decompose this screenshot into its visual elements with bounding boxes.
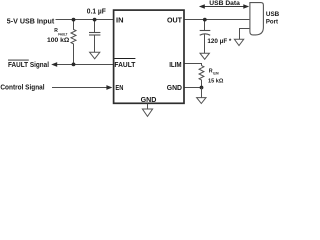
svg-text:FAULT Signal: FAULT Signal [8,61,49,69]
capacitor C2 stems [204,20,206,54]
node junction dot FAULT/R_FAULT [72,63,76,67]
resistor R_FAULT [71,20,76,65]
svg-text:Control Signal: Control Signal [0,84,44,92]
svg-text:OUT: OUT [167,15,183,24]
svg-text:GND: GND [167,83,182,92]
svg-text:100 kΩ: 100 kΩ [47,37,70,44]
IC box U1 [114,10,184,103]
svg-text:IN: IN [116,15,124,24]
svg-text:15 kΩ: 15 kΩ [208,78,224,84]
node junction dot input/C1 [93,18,97,22]
wire input to IN pin [56,19,114,21]
resistor R_ILIM [199,66,204,88]
svg-text:ILIM: ILIM [169,60,181,69]
arrowhead FAULT signal (points left) [51,62,57,67]
svg-text:0.1 µF: 0.1 µF [87,8,107,15]
USB port connector shell [250,3,264,35]
overbar on FAULT pin [114,58,135,60]
node junction dot R_ILIM/GND [200,86,204,90]
wire OUT pin to USB port [185,19,250,21]
node junction dot input/R_FAULT [72,18,76,22]
ground under R_ILIM [197,88,206,104]
capacitor C1 0.1uF plates [89,33,100,36]
svg-text:5-V USB Input: 5-V USB Input [7,17,55,26]
ground under C1 [90,52,100,59]
arrowhead USB data left [199,4,205,9]
wire USB port ground tab [240,29,250,40]
svg-text:Port: Port [266,18,279,25]
overbar on FAULT Signal [8,59,29,61]
svg-text:FAULT: FAULT [114,60,136,69]
node junction dot OUT/C2 [203,18,207,22]
svg-text:GND: GND [141,95,157,104]
svg-text:USB Data: USB Data [209,0,240,7]
svg-text:EN: EN [115,83,123,92]
arrowhead EN (points right into pin) [106,85,112,90]
ground under C2 [200,53,209,59]
wire FAULT signal to FAULT pin [57,64,114,66]
wire GND pin to R_ILIM bottom node [185,87,202,89]
wire control signal to EN pin [52,87,107,89]
USB data double arrow [202,6,246,8]
svg-text:120 µF *: 120 µF * [207,38,232,45]
svg-text:USB: USB [266,11,280,18]
svg-text:FAULT: FAULT [58,33,68,37]
wire ILIM pin to R_ILIM [185,64,202,66]
ground under IC box [142,104,152,117]
svg-text:R: R [209,68,213,74]
arrowhead USB data right [243,4,249,9]
capacitor C2 120uF [200,31,211,36]
capacitor C1 stems [94,20,96,53]
svg-text:ILIM: ILIM [213,72,219,76]
ground under USB port [234,39,243,45]
